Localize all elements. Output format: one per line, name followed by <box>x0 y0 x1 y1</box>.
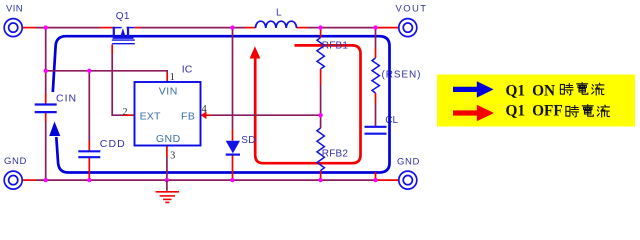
svg-text:CDD: CDD <box>100 138 126 150</box>
svg-text:CIN: CIN <box>56 93 77 105</box>
node VOUT/CL top <box>373 25 377 29</box>
node FB divider <box>318 113 322 117</box>
wire gate to EXT <box>112 54 123 115</box>
wire gnd terminal stub <box>22 179 36 181</box>
wire VIN terminal stub <box>22 27 36 29</box>
wire EXT pin2 stub <box>123 114 134 116</box>
node gnd CL <box>373 178 377 182</box>
op-amp IC box <box>135 82 201 146</box>
svg-text:FB: FB <box>181 111 195 123</box>
svg-text:EXT: EXT <box>140 111 161 123</box>
terminal VIN <box>4 19 22 37</box>
terminal GND right <box>399 171 417 189</box>
resistor RFB2 <box>317 128 324 171</box>
terminal GND left <box>4 171 22 189</box>
capacitor CDD <box>78 151 100 157</box>
Q1 OFF current loop (thick red path) <box>255 45 360 163</box>
svg-text:RFB1: RFB1 <box>322 41 349 52</box>
wire L to VOUT <box>308 27 378 29</box>
kanji 時電流 line 2 <box>566 105 609 117</box>
wire RFB1 bottom stub <box>320 69 322 85</box>
wire gnd rail right stub <box>376 179 399 181</box>
wire Q1 right stub <box>135 27 140 29</box>
ground <box>166 180 168 191</box>
svg-text:Q1 ON: Q1 ON <box>506 82 556 99</box>
svg-text:IC: IC <box>182 64 193 76</box>
wire Q1 to L <box>140 27 245 29</box>
svg-text:VIN: VIN <box>159 85 178 97</box>
wire RFB2 bottom stub <box>320 171 322 181</box>
transistor Q1 <box>112 27 135 44</box>
svg-text:4: 4 <box>202 104 207 115</box>
svg-text:Q1: Q1 <box>116 11 130 22</box>
legend box <box>437 75 635 127</box>
node gnd SD <box>230 178 234 182</box>
wires: maroon segments <box>36 28 377 181</box>
terminal VOUT <box>399 19 417 37</box>
wire CIN branch vertical <box>45 28 47 181</box>
wire Q1 left stub <box>100 27 113 29</box>
wire IC gnd pin3 <box>166 157 168 180</box>
wire L right stub <box>297 27 308 29</box>
svg-text:2: 2 <box>123 107 128 118</box>
wire pin1 stub <box>166 73 168 82</box>
wire VIN net to pin 1 <box>46 71 168 73</box>
wire RSEN stubs <box>375 48 377 104</box>
capacitor CL <box>365 127 387 134</box>
wire ground rail <box>36 179 376 181</box>
kanji 時電流 line 1 <box>560 83 603 95</box>
legend blue arrow <box>453 87 478 92</box>
wire VOUT terminal stub <box>377 27 399 29</box>
wire pin3 stub <box>166 146 168 158</box>
svg-text:L: L <box>276 8 282 19</box>
wire SD anode stub <box>232 130 234 141</box>
diode SD <box>226 141 240 154</box>
電 <box>577 83 588 95</box>
node CDD mid <box>87 69 91 73</box>
inductor L <box>256 21 297 28</box>
node VIN/CIN top <box>44 25 48 29</box>
wire top VIN to Q1 <box>36 27 100 29</box>
Q1 ON current loop arrowhead at CIN <box>49 122 60 137</box>
svg-text:VIN: VIN <box>6 4 23 15</box>
Q1 OFF current loop arrowhead at SD <box>250 46 261 58</box>
resistor RFB1 <box>317 38 324 70</box>
wire CL bottom stub <box>375 172 377 180</box>
wire RFB1 top stub <box>320 28 322 38</box>
wire RFB middle <box>320 85 322 128</box>
node gnd IC <box>165 178 169 182</box>
resistor RSEN <box>372 58 379 93</box>
FB pin red arrowhead <box>201 111 207 119</box>
capacitor CIN <box>35 105 57 113</box>
svg-text:Q1 OFF: Q1 OFF <box>506 103 563 120</box>
svg-text:VOUT: VOUT <box>396 4 428 15</box>
wire FB pin4 stub <box>205 114 211 116</box>
svg-text:CL: CL <box>385 115 398 126</box>
svg-text:SD: SD <box>241 135 256 146</box>
node VOUT/RFB1 top <box>318 25 322 29</box>
wire CIN stubs <box>45 93 47 122</box>
流 <box>592 83 604 95</box>
svg-text:GND: GND <box>4 156 27 167</box>
wire FB to divider <box>211 114 321 116</box>
svg-text:3: 3 <box>170 150 175 161</box>
時 <box>560 84 572 95</box>
wires: red pin stub segments <box>22 28 399 181</box>
wire CDD stubs <box>88 140 90 180</box>
node switch/SD top <box>230 25 234 29</box>
node CIN mid <box>44 69 48 73</box>
wire gate stub <box>111 44 113 54</box>
wire SD branch <box>232 28 234 130</box>
wire SD cathode to gnd <box>232 155 234 181</box>
svg-text:GND: GND <box>397 156 420 167</box>
wire CDD branch <box>88 71 90 140</box>
svg-text:(RSEN): (RSEN) <box>382 70 422 81</box>
wire CL branch <box>375 28 377 126</box>
legend red arrow <box>453 110 478 115</box>
svg-text:RFB2: RFB2 <box>322 149 349 160</box>
Q1 ON current loop (thick blue path) <box>53 36 390 172</box>
node gnd CDD <box>87 178 91 182</box>
node gnd RFB2 <box>318 178 322 182</box>
svg-text:1: 1 <box>170 72 175 83</box>
node gnd CIN <box>44 178 48 182</box>
wire L left stub <box>245 27 256 29</box>
svg-text:GND: GND <box>156 133 181 145</box>
